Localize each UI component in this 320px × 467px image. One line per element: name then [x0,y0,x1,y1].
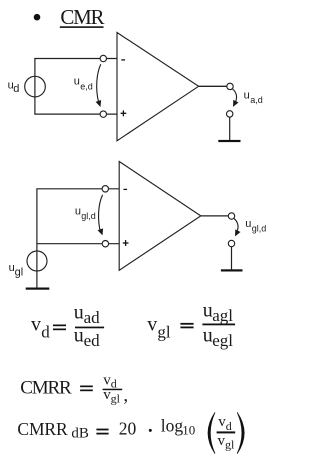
svg-text:e,d: e,d [80,82,93,92]
ground (circuit1 output) [218,140,240,142]
ground (circuit2 source) [26,288,50,290]
svg-text:d: d [226,419,232,433]
op-amp U2 [119,162,201,271]
node: circuit1 inverting input terminal [100,55,106,61]
wire: circuit2 bottom wire (to + input) [36,243,119,245]
formula CMRR = v_d/v_gl, [20,372,128,406]
svg-text:log: log [161,416,184,436]
bullet [34,14,41,21]
svg-text:v: v [147,313,157,335]
voltage source u_gl [27,251,47,271]
svg-text:CMRR: CMRR [17,419,68,439]
pin label: U1 inverting input - [121,59,125,61]
arrow u_gl,d (input common-mode voltage) [98,195,104,236]
pin label: U2 inverting input - [124,188,128,190]
svg-text:gl,d: gl,d [81,211,96,221]
svg-text:u: u [75,205,81,217]
svg-text:gl: gl [157,323,171,342]
svg-text:20: 20 [119,419,137,439]
pin label: U1 non-inverting input + [121,110,127,116]
arrow u_gl,d (output voltage) [234,219,240,237]
formula v_d = u_ad/u_ed [31,301,104,350]
wire: U2 output [201,215,229,217]
svg-text:gl,d: gl,d [252,224,267,234]
wire: circuit1 bottom wire (u_d to + input) [34,113,117,115]
svg-text:ed: ed [84,331,101,350]
node: circuit2 output terminal [228,213,234,219]
value label u_gl,d (left) [75,205,96,221]
node: circuit1 non-inverting input terminal [100,111,106,117]
node: circuit2 inverting input terminal [102,186,108,192]
formula v_gl = u_agl/u_egl [147,300,235,351]
svg-text:CMR: CMR [60,5,104,29]
svg-text:ad: ad [84,308,101,327]
svg-text:gl: gl [15,267,24,279]
formula CMRR_dB = 20 log10 (v_d/v_gl) [17,413,244,454]
arrow u_a,d (output voltage) [233,89,239,107]
svg-text:gl: gl [111,391,121,405]
node: circuit1 output terminal [227,83,233,89]
wire: circuit1 output to ground [229,117,231,140]
wire: circuit1 top wire (u_d to - input) [34,58,117,60]
svg-text:d: d [41,323,50,342]
pin label: U2 non-inverting input + [123,240,129,246]
node: circuit2 ground terminal [228,240,234,246]
arrow u_e,d (input differential voltage) [96,64,102,107]
svg-text:u: u [245,218,251,230]
svg-text:u: u [74,301,84,323]
node: circuit2 non-inverting input terminal [102,241,108,247]
svg-text:d: d [13,83,19,95]
wire: circuit1 left vertical [34,59,36,115]
svg-text:,: , [123,385,128,406]
svg-text:dB: dB [71,425,89,441]
wire: circuit2 output to ground [231,247,233,270]
svg-text:CMRR: CMRR [20,377,72,398]
svg-text:u: u [74,76,80,88]
svg-text:gl: gl [225,438,235,452]
wire: circuit2 left vertical [36,189,38,288]
value label u_a,d [244,89,263,105]
wire: circuit2 top wire (to - input) [36,188,119,190]
svg-text:d: d [111,376,117,390]
svg-text:10: 10 [182,423,195,438]
ground (circuit2 output) [221,269,243,271]
op-amp U1 [117,33,199,141]
svg-text:egl: egl [212,331,233,350]
svg-text:u: u [244,89,250,101]
wire: U1 output [199,85,227,87]
value label u_d [8,79,20,95]
svg-text:v: v [31,314,41,336]
svg-text:agl: agl [212,306,233,325]
value label u_gl [9,262,24,278]
svg-text:a,d: a,d [250,95,263,105]
value label u_gl,d (right) [245,218,266,234]
value label u_e,d [74,76,93,92]
svg-text:u: u [74,325,84,347]
node: circuit1 ground terminal [227,111,233,117]
voltage source u_d [25,76,46,97]
